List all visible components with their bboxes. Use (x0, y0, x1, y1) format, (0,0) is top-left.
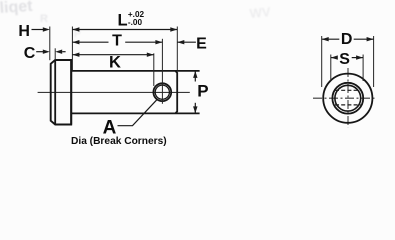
shank top line (extends right as P extension) (71, 70, 199, 72)
dimension E leader (177, 41, 196, 43)
shank circle (end view) (332, 83, 363, 114)
dimension K line (72, 54, 153, 56)
svg-text:E: E (196, 35, 207, 52)
svg-text:L: L (118, 12, 128, 30)
dimension S line (331, 57, 338, 59)
end view horizontal centerline (313, 97, 375, 99)
end view vertical centerline (347, 68, 349, 128)
svg-text:P: P (197, 82, 208, 101)
svg-text:Dia (Break Corners): Dia (Break Corners) (71, 136, 167, 147)
svg-text:T: T (112, 33, 122, 50)
side view centerline (38, 91, 190, 93)
svg-text:-.00: -.00 (128, 18, 143, 27)
svg-text:R: R (40, 13, 48, 25)
dimension T line (72, 41, 108, 43)
dimension L line (72, 29, 177, 31)
svg-text:K: K (109, 54, 121, 72)
extension line head crown tangent (54, 48, 56, 60)
dimension P line (194, 71, 196, 82)
hole outer circle (153, 83, 171, 101)
svg-text:C: C (24, 45, 36, 62)
hole inner circle (break corners) (155, 85, 169, 99)
extension lines D (321, 36, 323, 87)
svg-text:D: D (341, 31, 353, 48)
shank chamfer circle (end view) (335, 85, 361, 111)
extension line hole near edge (153, 53, 155, 86)
svg-text:WV: WV (249, 4, 271, 21)
dimension C leaders (36, 51, 43, 53)
svg-text:liqet: liqet (0, 0, 34, 17)
svg-text:H: H (18, 23, 30, 40)
head outer circle (end view) (323, 74, 372, 123)
extension line pin end (176, 27, 178, 71)
svg-text:S: S (339, 51, 350, 68)
dimension H leader (32, 29, 45, 31)
shank bottom line (extends right as P extension) (71, 112, 199, 114)
pin end face with broken corners (175, 71, 177, 114)
extension line hole center / vertical centerline (161, 39, 163, 104)
head chamfer tangent line (54, 60, 56, 125)
extension line under-head face (71, 27, 73, 71)
hole leader line A (118, 100, 157, 126)
dimension D line (322, 38, 340, 40)
pin head outline (51, 60, 71, 125)
hidden hole line lower (335, 104, 361, 106)
hidden hole line upper (335, 89, 361, 91)
head right face (70, 60, 72, 125)
extension lines S (330, 55, 332, 82)
extension line head left face (49, 27, 51, 61)
